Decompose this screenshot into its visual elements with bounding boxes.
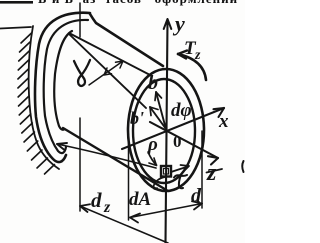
bottom twisted line with arrow bbox=[57, 144, 156, 168]
z axis bbox=[150, 122, 218, 158]
svg-text:d: d bbox=[91, 188, 102, 212]
extension line left (x=80) top bbox=[79, 3, 81, 37]
top text dash bbox=[0, 1, 33, 4]
wall hatching bbox=[18, 33, 55, 174]
svg-text:y: y bbox=[172, 11, 185, 36]
tau glyph drawn bbox=[174, 175, 187, 178]
svg-text:d: d bbox=[191, 185, 202, 207]
dA element square bbox=[161, 166, 171, 177]
rho leader arrow bbox=[148, 152, 157, 165]
line a-b (straight generator) bbox=[69, 33, 152, 76]
svg-text:z: z bbox=[206, 160, 217, 186]
extension line middle (x=128.5) bbox=[128, 134, 130, 220]
tau arrow bbox=[171, 167, 188, 173]
line a-b' (twisted generator) bbox=[69, 34, 146, 108]
svg-text:dφ: dφ bbox=[171, 100, 192, 121]
top generator outline bbox=[90, 14, 163, 66]
z crossbar bbox=[207, 169, 223, 173]
wall top edge bbox=[0, 27, 31, 29]
extension line left (x=80) bottom bbox=[79, 118, 81, 211]
cap rim inner arc bbox=[44, 20, 88, 153]
wall edge bbox=[29, 26, 59, 169]
gamma angle arc with arrows bbox=[89, 61, 123, 85]
cap face arc bbox=[54, 31, 72, 130]
squiggle under element bbox=[153, 177, 165, 189]
svg-text:ρ: ρ bbox=[147, 134, 158, 155]
cap outer arc bbox=[35, 13, 90, 162]
svg-text:dA: dA bbox=[129, 189, 151, 210]
Tz moment arrow bbox=[178, 54, 206, 80]
dz dimension slanted line bbox=[80, 206, 168, 243]
label gamma drawn bbox=[74, 60, 90, 86]
bottom generator outline bbox=[63, 128, 168, 191]
svg-text:0: 0 bbox=[173, 132, 182, 151]
d dimension line bbox=[130, 204, 202, 218]
svg-text:z: z bbox=[103, 199, 111, 216]
svg-text:b: b bbox=[148, 72, 158, 94]
extension line right (x=202) bbox=[201, 131, 203, 208]
cropped text row at top of scan bbox=[38, 0, 238, 7]
radius O-b bbox=[156, 92, 166, 129]
inner section ellipse bbox=[133, 79, 195, 183]
x axis bbox=[122, 108, 224, 149]
svg-text:x: x bbox=[218, 111, 229, 132]
right edge stray mark bbox=[242, 161, 243, 172]
y axis bbox=[166, 21, 168, 243]
radius O-b' bbox=[150, 107, 166, 129]
outer section ellipse bbox=[128, 69, 204, 191]
svg-text:b': b' bbox=[130, 108, 144, 128]
svg-text:z: z bbox=[194, 48, 201, 63]
